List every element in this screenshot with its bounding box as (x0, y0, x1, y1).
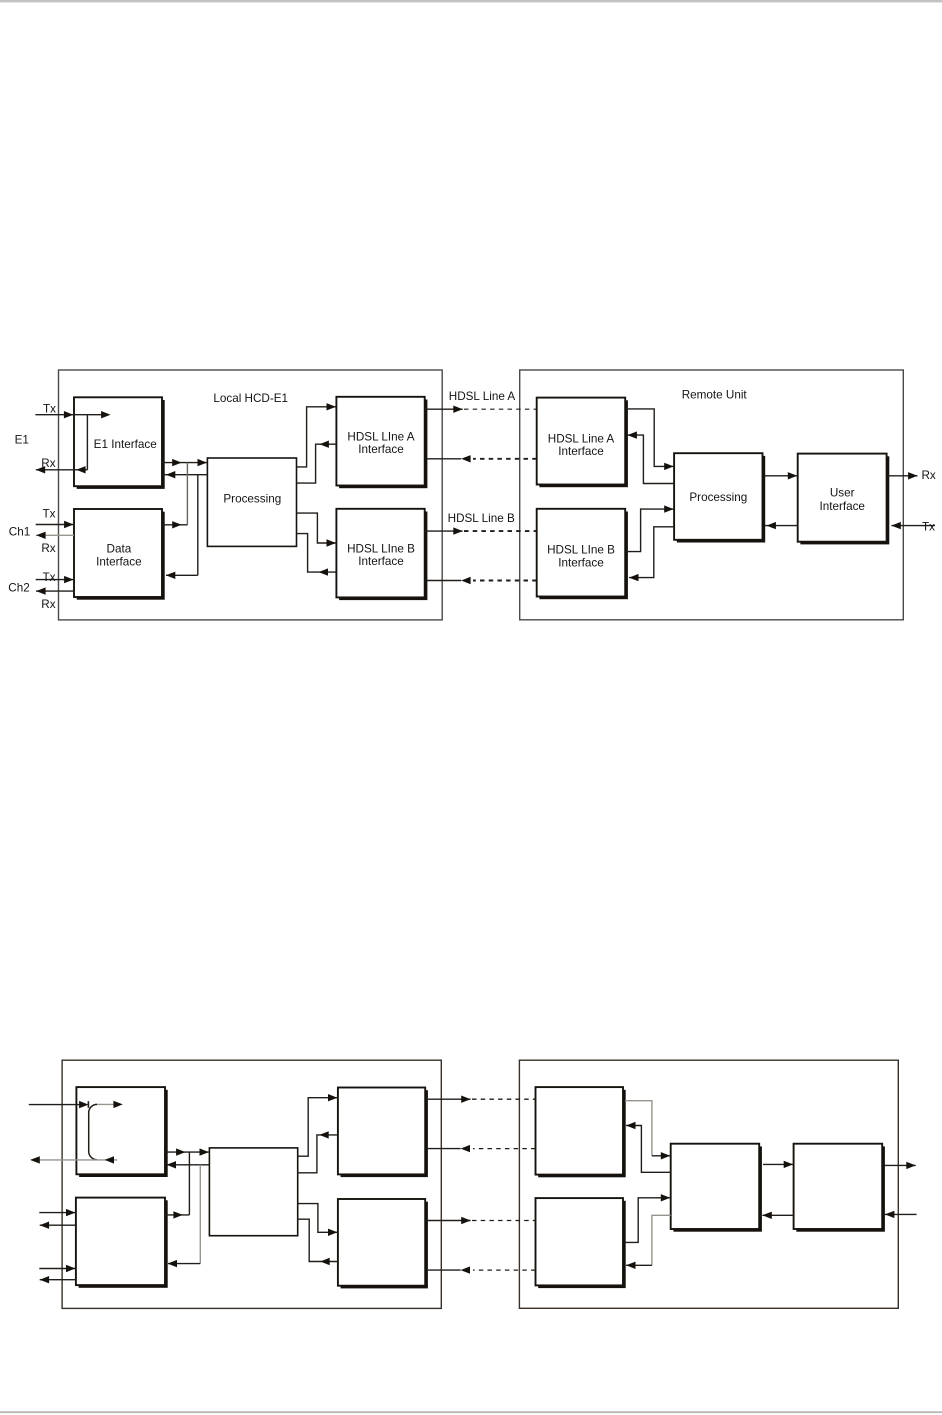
svg-text:HDSL LIne A: HDSL LIne A (347, 431, 414, 444)
svg-text:Rx: Rx (41, 542, 55, 555)
svg-text:Data: Data (107, 542, 132, 555)
svg-text:Processing: Processing (689, 491, 747, 504)
svg-text:Interface: Interface (558, 556, 603, 569)
svg-text:E1 Interface: E1 Interface (94, 438, 157, 451)
svg-text:Rx: Rx (41, 457, 55, 470)
svg-text:Rx: Rx (921, 469, 935, 482)
svg-text:Rx: Rx (41, 598, 55, 611)
svg-text:Tx: Tx (43, 571, 56, 584)
svg-text:Interface: Interface (558, 445, 603, 458)
svg-text:Ch2: Ch2 (8, 582, 29, 595)
svg-text:HDSL LIne B: HDSL LIne B (347, 543, 415, 556)
svg-text:Interface: Interface (358, 555, 403, 568)
svg-text:User: User (830, 487, 855, 500)
svg-text:Ch1: Ch1 (9, 526, 30, 539)
svg-text:HDSL Line A: HDSL Line A (548, 432, 615, 445)
svg-text:Interface: Interface (358, 443, 403, 456)
svg-text:Tx: Tx (922, 521, 935, 534)
svg-text:HDSL Line B: HDSL Line B (448, 512, 515, 525)
svg-text:Tx: Tx (43, 402, 56, 415)
svg-text:Tx: Tx (43, 508, 56, 521)
svg-text:Interface: Interface (819, 500, 864, 513)
svg-text:E1: E1 (15, 433, 29, 446)
svg-text:Interface: Interface (96, 555, 141, 568)
svg-text:HDSL Line A: HDSL Line A (449, 390, 516, 403)
svg-text:HDSL LIne B: HDSL LIne B (547, 544, 615, 557)
svg-text:Remote Unit: Remote Unit (682, 388, 748, 401)
svg-text:Local HCD-E1: Local HCD-E1 (213, 392, 288, 405)
svg-text:Processing: Processing (223, 492, 281, 505)
